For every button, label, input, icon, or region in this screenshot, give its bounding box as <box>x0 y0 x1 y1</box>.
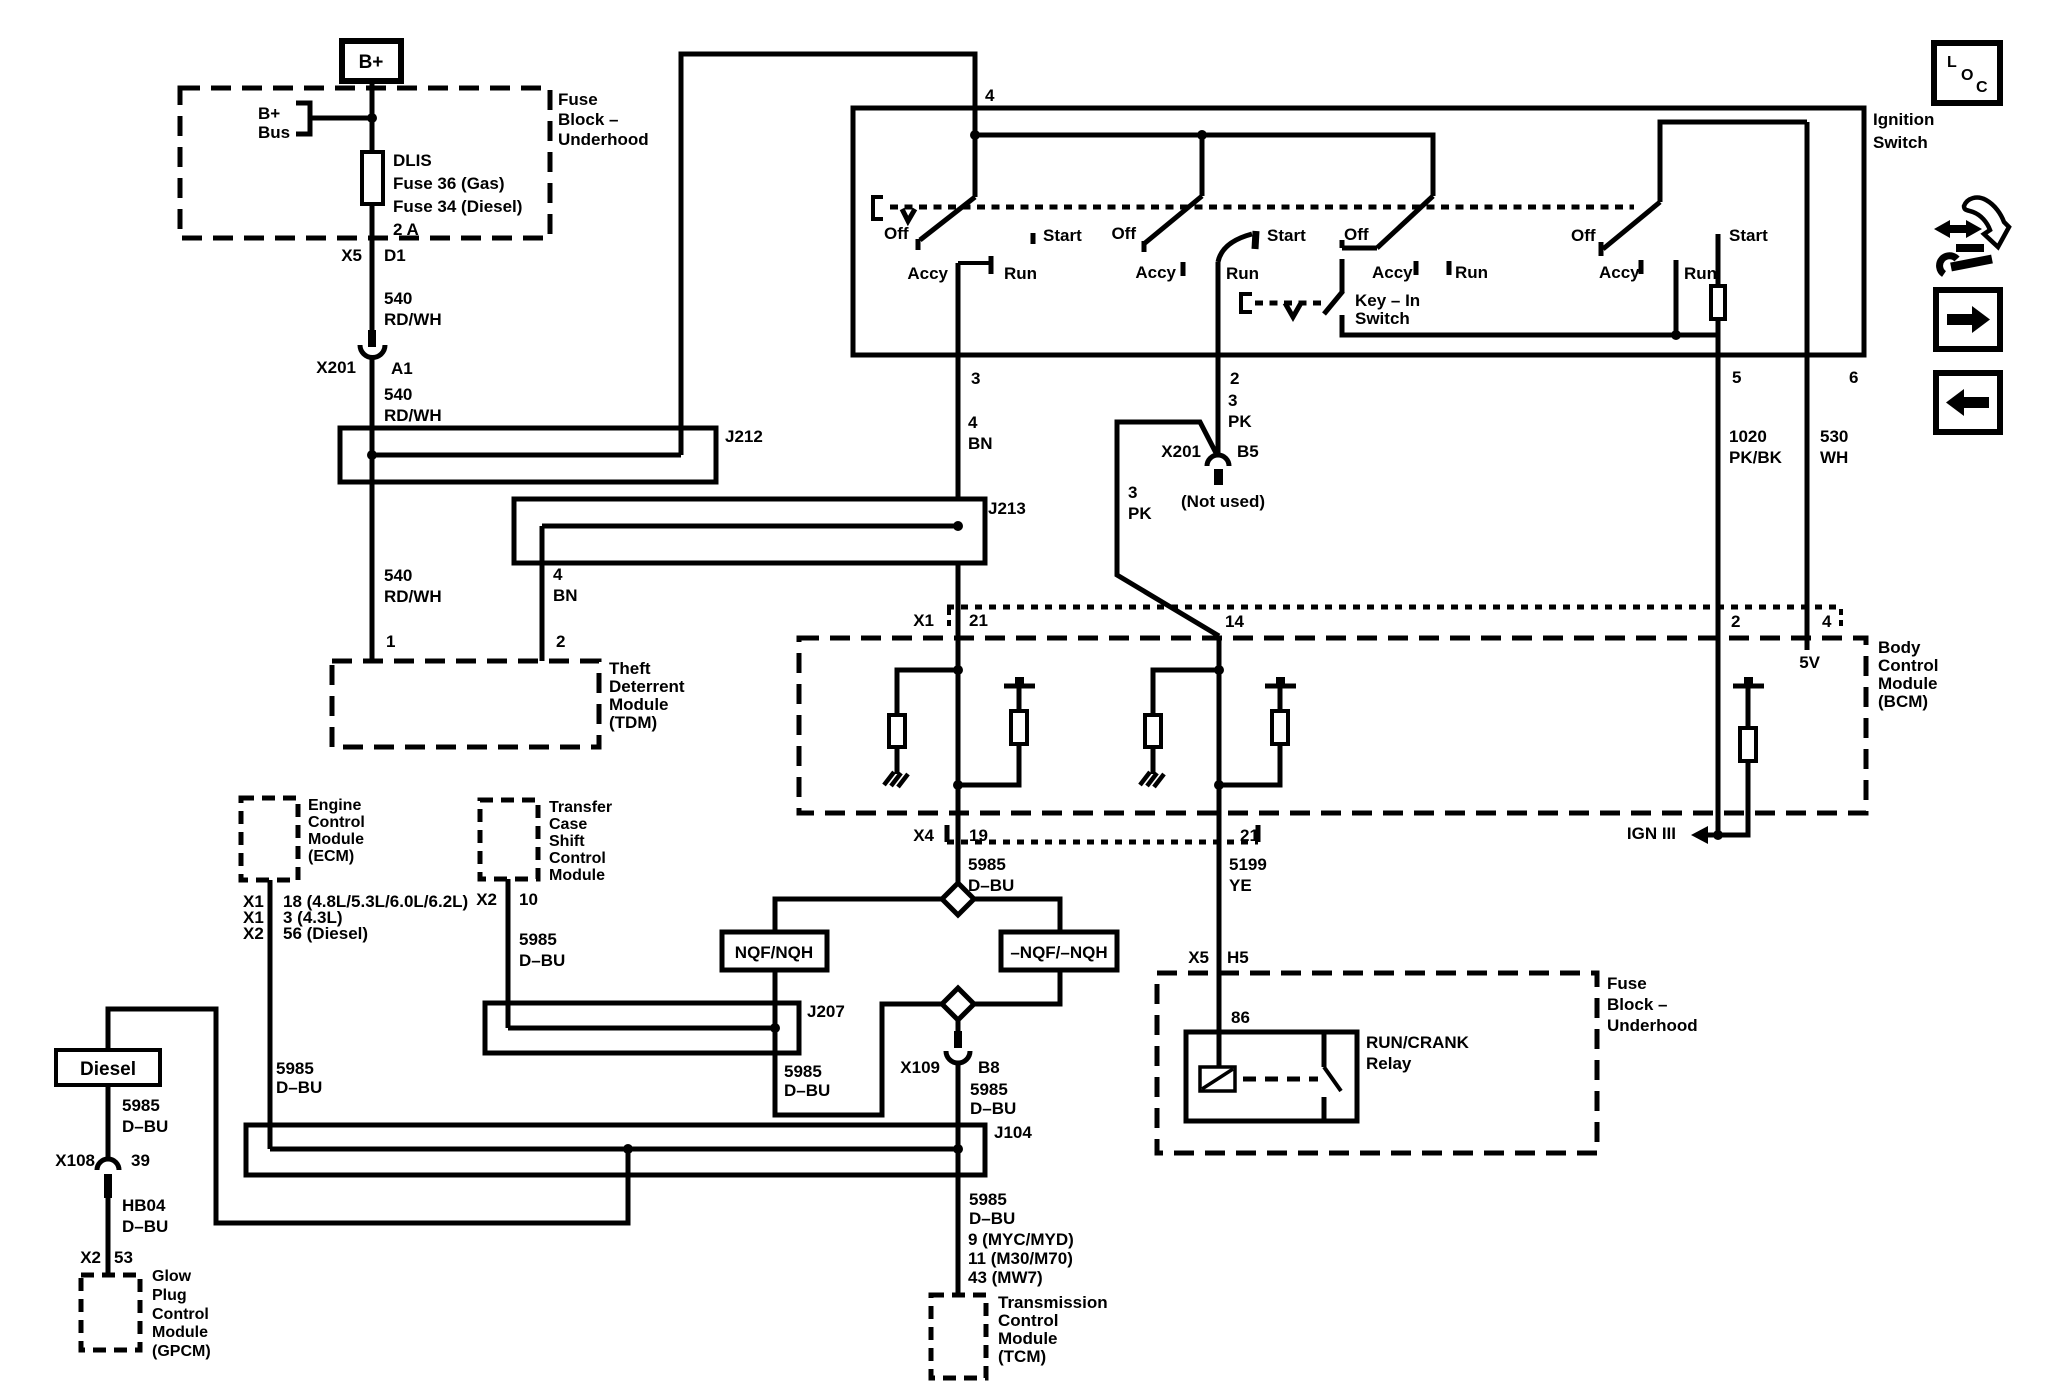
switch2 Accy tick <box>1181 262 1186 276</box>
wire pin4 internal vertical <box>973 109 978 197</box>
connector X201 A1 terminal <box>368 330 376 347</box>
svg-text:WH: WH <box>1820 448 1848 467</box>
switch3 blade <box>1377 196 1433 248</box>
svg-text:3: 3 <box>971 369 980 388</box>
switch3 Run tick <box>1447 261 1452 275</box>
junction dot pin21 lower <box>953 780 963 790</box>
wire J207 internal <box>508 1026 775 1031</box>
wire label 5985 D-BU transfer <box>519 930 565 970</box>
svg-text:Run: Run <box>1455 263 1488 282</box>
svg-text:5985: 5985 <box>968 855 1006 874</box>
wire diamond2 to X109 <box>956 1020 961 1031</box>
wire BCM pin4 5V stub <box>1805 607 1810 650</box>
wire diesel to X108 <box>106 1085 111 1160</box>
wire bus to junction <box>310 116 373 121</box>
svg-text:–NQF/–NQH: –NQF/–NQH <box>1010 943 1107 962</box>
theft deterrent module TDM dashed box <box>332 661 599 747</box>
switch1 Run tick <box>989 256 994 274</box>
X1 pin labels <box>913 611 1832 631</box>
wire J212 to ignition pin 4 <box>681 54 975 455</box>
option splice diamond upper <box>942 883 974 915</box>
right arrow box <box>1936 290 2000 349</box>
svg-text:1020: 1020 <box>1729 427 1767 446</box>
wire label HB04 D-BU <box>122 1196 168 1236</box>
tool icon wrench <box>1940 256 1957 274</box>
switch2 start curve <box>1218 234 1252 262</box>
BCM pulldown branch pin21 <box>897 670 958 715</box>
rail T-bar pin2 <box>1733 684 1764 689</box>
junction dot switch2 feed <box>1197 130 1207 140</box>
svg-text:X201: X201 <box>316 358 356 377</box>
svg-text:X2: X2 <box>476 890 497 909</box>
svg-text:X5: X5 <box>1188 948 1209 967</box>
rail T-bar pin21 <box>1004 684 1035 689</box>
wire BCM pin21 internal <box>956 638 961 813</box>
relay coil diagonal <box>1202 1069 1233 1089</box>
svg-text:PK: PK <box>1128 504 1152 523</box>
wire resistor to ground pin14 <box>1151 747 1156 774</box>
wire -NQF to diamond2 <box>974 970 1060 1004</box>
svg-text:NQF/NQH: NQF/NQH <box>735 943 813 962</box>
key-in blade <box>1324 291 1343 314</box>
wire label 1020 PK/BK <box>1729 427 1783 467</box>
svg-text:Module: Module <box>1878 674 1938 693</box>
wire BCM pin14 internal <box>1217 636 1222 813</box>
wire diamond to NQF <box>775 899 942 932</box>
key-in common upper <box>1340 259 1345 292</box>
tool icon curved outline arrow <box>1964 198 2009 247</box>
svg-text:D–BU: D–BU <box>519 951 565 970</box>
svg-text:3: 3 <box>1128 483 1137 502</box>
junction dot J104 right <box>953 1144 963 1154</box>
key-in V arrow <box>1285 303 1301 317</box>
option dashed line <box>890 205 1634 210</box>
wire resistor to ground <box>895 747 900 774</box>
pin number labels 3 2 5 6 <box>971 368 1858 388</box>
svg-text:J213: J213 <box>988 499 1026 518</box>
svg-text:3: 3 <box>1228 391 1237 410</box>
BCM pin2 resistor branch <box>1718 761 1748 835</box>
svg-text:Start: Start <box>1043 226 1082 245</box>
switch4 labels <box>1571 226 1768 283</box>
relay coil <box>1200 1067 1235 1091</box>
junction dot run contact <box>1671 330 1681 340</box>
fuse block underhood dashed box <box>180 88 550 238</box>
svg-text:Fuse: Fuse <box>1607 974 1647 993</box>
svg-text:540: 540 <box>384 566 412 585</box>
connector X201 A1 labels <box>316 358 412 378</box>
switch4 feed path <box>1660 122 1807 202</box>
switch4 Off tick <box>1599 242 1604 256</box>
splice box J213 <box>514 499 985 563</box>
connector X4 left bracket <box>945 825 950 842</box>
svg-text:A1: A1 <box>391 359 413 378</box>
switch2 blade <box>1145 196 1202 243</box>
X108 labels <box>55 1151 150 1170</box>
junction dot J212 <box>367 450 377 460</box>
junction dot pin4 bus <box>970 130 980 140</box>
svg-text:YE: YE <box>1229 876 1252 895</box>
wire label 530 WH <box>1820 427 1848 467</box>
svg-text:Fuse 34 (Diesel): Fuse 34 (Diesel) <box>393 197 522 216</box>
svg-text:10: 10 <box>519 890 538 909</box>
svg-text:4: 4 <box>1822 612 1832 631</box>
switch2 labels <box>1111 224 1306 283</box>
option splice diamond lower <box>942 988 974 1020</box>
svg-text:Diesel: Diesel <box>80 1059 136 1080</box>
svg-text:Relay: Relay <box>1366 1054 1412 1073</box>
ground BCM pin14 <box>1140 772 1164 787</box>
svg-text:Control: Control <box>998 1311 1058 1330</box>
svg-text:J212: J212 <box>725 427 763 446</box>
svg-text:Switch: Switch <box>1355 309 1410 328</box>
wire internal feed bus <box>975 135 1433 196</box>
relay switch blade <box>1324 1067 1341 1091</box>
connector X1 dotted line <box>947 605 1841 610</box>
ground BCM pin21 <box>884 772 908 787</box>
svg-text:C: C <box>1976 79 1988 96</box>
svg-text:D–BU: D–BU <box>968 876 1014 895</box>
wire label 5199 YE <box>1229 855 1267 895</box>
svg-text:Off: Off <box>1344 225 1369 244</box>
svg-text:4: 4 <box>968 413 978 432</box>
svg-text:X4: X4 <box>913 826 934 845</box>
option box -NQF/-NQH <box>1001 932 1117 970</box>
svg-text:5985: 5985 <box>784 1062 822 1081</box>
X5 H5 pin labels <box>1188 948 1249 967</box>
svg-text:X5: X5 <box>341 246 362 265</box>
svg-text:Control: Control <box>152 1306 209 1323</box>
svg-text:Off: Off <box>884 224 909 243</box>
svg-text:5985: 5985 <box>970 1080 1008 1099</box>
svg-text:Block –: Block – <box>558 110 618 129</box>
transfer case shift control module dashed box <box>480 800 538 879</box>
BCM pulldown branch pin14 <box>1153 670 1219 715</box>
svg-text:Start: Start <box>1729 226 1768 245</box>
svg-text:PK: PK <box>1228 412 1252 431</box>
connector X201 A1 cup <box>360 345 385 357</box>
wire label 4 BN left <box>553 565 578 605</box>
svg-text:Underhood: Underhood <box>558 130 649 149</box>
switch2 start arrow bar <box>1255 231 1256 249</box>
wire J104 internal <box>270 1147 958 1152</box>
option V arrow <box>902 209 915 221</box>
svg-text:2 A: 2 A <box>393 220 419 239</box>
svg-text:2: 2 <box>1731 612 1740 631</box>
engine control module ECM dashed box <box>241 798 298 880</box>
relay switch lower contact <box>1322 1097 1327 1119</box>
svg-text:4: 4 <box>553 565 563 584</box>
wire B8 through J104 to TCM <box>956 1125 961 1295</box>
connector X108 cap <box>97 1159 119 1170</box>
switch1 Start tick <box>1031 233 1036 244</box>
svg-text:D–BU: D–BU <box>276 1078 322 1097</box>
wire label 5985 D-BU X109 <box>970 1080 1016 1118</box>
svg-text:21: 21 <box>1240 826 1259 845</box>
switch4 start resistor <box>1711 286 1725 319</box>
wire X201 to TDM pin 1 <box>370 358 375 661</box>
switch3 Off contact <box>1342 240 1377 248</box>
svg-text:Ignition: Ignition <box>1873 110 1934 129</box>
switch1 labels <box>884 224 1082 283</box>
wire X108 to GPCM <box>106 1198 111 1275</box>
wire pin 5 to BCM 2 <box>1716 335 1721 638</box>
wire fuse to X201 <box>370 204 375 330</box>
svg-text:5985: 5985 <box>122 1096 160 1115</box>
resistor BCM pin14 pullup <box>1272 711 1288 744</box>
tool icon bottom bar <box>1956 244 1984 252</box>
junction dot J104 left <box>623 1144 633 1154</box>
connector X109 terminal <box>954 1031 962 1048</box>
switch3 Accy tick <box>1414 261 1419 275</box>
ECM label <box>308 797 365 865</box>
connector X1 left stub <box>947 609 951 628</box>
svg-text:21: 21 <box>969 611 988 630</box>
wire diamond to -NQF <box>974 899 1060 932</box>
svg-text:Engine: Engine <box>308 797 361 814</box>
svg-text:Module: Module <box>549 867 605 884</box>
wire switch1 to pin 3 <box>956 263 961 355</box>
wire label 540 RD/WH lower <box>384 566 442 606</box>
svg-text:RD/WH: RD/WH <box>384 310 442 329</box>
svg-text:Key – In: Key – In <box>1355 291 1420 310</box>
svg-text:X2: X2 <box>243 924 264 943</box>
svg-text:Control: Control <box>308 814 365 831</box>
svg-text:Accy: Accy <box>1135 263 1176 282</box>
wire NQF to J207 <box>773 970 778 1003</box>
splice box J207 <box>485 1003 799 1053</box>
IGN III arrowhead <box>1691 826 1708 844</box>
rail nub pin2 <box>1744 677 1753 686</box>
fuse DLIS symbol <box>362 152 383 204</box>
ECM pin option labels <box>243 892 468 943</box>
switch1 Off tick <box>916 239 921 250</box>
wire pin 6 to BCM 4 <box>1805 122 1810 607</box>
svg-text:RUN/CRANK: RUN/CRANK <box>1366 1033 1470 1052</box>
rail T-bar pin14 <box>1265 684 1296 689</box>
junction dot B+ bus <box>367 113 377 123</box>
wire NQF through J207 <box>773 1003 778 1053</box>
svg-text:Transmission: Transmission <box>998 1293 1108 1312</box>
wire J207 loop to diamond2 <box>775 1004 942 1115</box>
switch1 Accy-Run contact bar <box>958 261 990 265</box>
svg-text:D–BU: D–BU <box>969 1209 1015 1228</box>
svg-text:5199: 5199 <box>1229 855 1267 874</box>
svg-text:B8: B8 <box>978 1058 1000 1077</box>
transfer case pin labels <box>476 890 538 909</box>
svg-text:RD/WH: RD/WH <box>384 587 442 606</box>
body control module BCM dashed box <box>799 638 1866 813</box>
svg-text:1: 1 <box>386 632 395 651</box>
svg-text:Accy: Accy <box>1599 263 1640 282</box>
svg-text:B+: B+ <box>258 104 280 123</box>
BCM pullup branch pin14 <box>1219 744 1280 785</box>
svg-text:14: 14 <box>1225 612 1244 631</box>
relay switch upper contact <box>1322 1034 1327 1067</box>
switch4 Accy tick <box>1639 260 1644 274</box>
svg-text:Underhood: Underhood <box>1607 1016 1698 1035</box>
pin X5 D1 labels <box>341 246 406 265</box>
svg-text:Body: Body <box>1878 638 1921 657</box>
svg-text:Module: Module <box>609 695 669 714</box>
svg-text:Block –: Block – <box>1607 995 1667 1014</box>
wire label 5985 D-BU diesel <box>122 1096 168 1136</box>
svg-text:(TCM): (TCM) <box>998 1347 1046 1366</box>
connector X108 terminal <box>104 1174 112 1198</box>
resistor BCM pin14 pulldown <box>1145 715 1161 747</box>
wire BCM 19 to splice <box>956 813 961 884</box>
resistor BCM pin21 pullup <box>1011 711 1027 744</box>
svg-text:Module: Module <box>308 831 364 848</box>
svg-text:HB04: HB04 <box>122 1196 166 1215</box>
fuse block underhood lower dashed box <box>1157 973 1597 1153</box>
svg-text:Run: Run <box>1684 264 1717 283</box>
svg-text:Start: Start <box>1267 226 1306 245</box>
B+ bus label <box>258 104 290 142</box>
svg-text:540: 540 <box>384 385 412 404</box>
TDM label <box>609 659 685 732</box>
svg-text:530: 530 <box>1820 427 1848 446</box>
connector X109 cup <box>946 1051 970 1063</box>
svg-text:J104: J104 <box>994 1123 1032 1142</box>
svg-text:IGN III: IGN III <box>1627 824 1676 843</box>
wire resistor to rail pin14 <box>1278 688 1283 711</box>
svg-text:540: 540 <box>384 289 412 308</box>
svg-text:D–BU: D–BU <box>970 1099 1016 1118</box>
diesel option box <box>56 1050 160 1085</box>
svg-text:Module: Module <box>152 1324 208 1341</box>
svg-text:B5: B5 <box>1237 442 1259 461</box>
svg-text:Module: Module <box>998 1329 1058 1348</box>
svg-text:56 (Diesel): 56 (Diesel) <box>283 924 368 943</box>
run/crank relay box <box>1186 1032 1357 1121</box>
wire BCM pin2 internal <box>1716 638 1721 835</box>
connector X201 B5 cap <box>1207 455 1229 466</box>
svg-text:L: L <box>1947 54 1957 71</box>
relay dashed link <box>1243 1077 1318 1082</box>
svg-text:Glow: Glow <box>152 1268 192 1285</box>
LOC box <box>1934 43 2000 103</box>
svg-text:(GPCM): (GPCM) <box>152 1343 211 1360</box>
svg-text:Theft: Theft <box>609 659 651 678</box>
svg-text:4: 4 <box>985 86 995 105</box>
rail nub pin21 <box>1015 677 1024 686</box>
svg-text:X109: X109 <box>900 1058 940 1077</box>
svg-text:Switch: Switch <box>1873 133 1928 152</box>
key-in dashed line <box>1255 301 1322 306</box>
wire J212 internal <box>372 453 681 458</box>
svg-text:5: 5 <box>1732 368 1741 387</box>
svg-text:O: O <box>1961 67 1973 84</box>
wire pin2 to X201 B5 <box>1216 355 1221 453</box>
svg-text:J207: J207 <box>807 1002 845 1021</box>
svg-text:BN: BN <box>553 586 578 605</box>
switch2 Off tick <box>1142 241 1147 252</box>
tool icon double arrow <box>1942 225 1974 233</box>
wire label 4 BN pin3 <box>968 413 993 453</box>
connector X1 right stub <box>1839 609 1843 626</box>
junction dot pin14 upper <box>1214 665 1224 675</box>
svg-text:Fuse 36 (Gas): Fuse 36 (Gas) <box>393 174 505 193</box>
wire label 5985 D-BU J207 <box>784 1062 830 1100</box>
svg-text:Run: Run <box>1226 264 1259 283</box>
svg-text:Fuse: Fuse <box>558 90 598 109</box>
svg-text:D–BU: D–BU <box>122 1117 168 1136</box>
BCM label <box>1878 638 1938 711</box>
svg-text:Accy: Accy <box>907 264 948 283</box>
switch4 blade <box>1603 202 1660 249</box>
svg-text:(TDM): (TDM) <box>609 713 657 732</box>
wire 4 BN to BCM 21 <box>956 563 961 638</box>
wire J213 to TDM pin 2 <box>540 526 545 661</box>
tool icon wrench handle <box>1951 259 1992 267</box>
svg-text:Bus: Bus <box>258 123 290 142</box>
svg-text:6: 6 <box>1849 368 1858 387</box>
connector X201 B5 terminal <box>1214 469 1223 485</box>
fuse block lower label <box>1607 974 1698 1035</box>
ignition switch label <box>1873 110 1934 152</box>
connector X4 dotted line <box>947 840 1258 845</box>
switch1 blade <box>920 197 975 240</box>
svg-text:5985: 5985 <box>276 1059 314 1078</box>
svg-text:X2: X2 <box>80 1248 101 1267</box>
svg-text:86: 86 <box>1231 1008 1250 1027</box>
svg-text:X108: X108 <box>55 1151 95 1170</box>
svg-text:RD/WH: RD/WH <box>384 406 442 425</box>
wire B5 branch to BCM 14 <box>1117 422 1219 636</box>
fuse block underhood label <box>558 90 649 149</box>
ignition switch box <box>853 108 1864 355</box>
svg-text:(Not used): (Not used) <box>1181 492 1265 511</box>
wire switch2 to pin 2 <box>1216 262 1221 355</box>
connector X4 right bracket <box>1256 825 1261 842</box>
svg-text:43 (MW7): 43 (MW7) <box>968 1268 1043 1287</box>
glow plug control module GPCM dashed box <box>81 1275 140 1350</box>
fuse labels <box>393 151 522 239</box>
wire label 5985 D-BU splice <box>968 855 1014 895</box>
junction dot pin21 upper <box>953 665 963 675</box>
X4 pin labels <box>913 826 1259 845</box>
svg-text:2: 2 <box>1230 369 1239 388</box>
resistor BCM pin21 pulldown <box>889 715 905 747</box>
splice box J212 <box>340 428 716 482</box>
switch4 Run contact line <box>1674 260 1679 335</box>
wire transfer case to J207 <box>506 879 511 1028</box>
wire label 540 RD/WH upper <box>384 289 442 329</box>
wire X109 to J104 <box>956 1063 961 1125</box>
junction dot IGN III <box>1713 830 1723 840</box>
left arrow box <box>1936 373 2000 432</box>
BCM pullup branch pin21 <box>958 744 1019 785</box>
wire label 3 PK branch <box>1128 483 1152 523</box>
resistor BCM pin2 <box>1740 728 1756 761</box>
svg-text:19: 19 <box>969 826 988 845</box>
svg-text:39: 39 <box>131 1151 150 1170</box>
wire BCM 21 to relay <box>1217 813 1222 1067</box>
B+ bus bracket <box>296 103 310 134</box>
svg-text:B+: B+ <box>359 52 384 73</box>
svg-text:Run: Run <box>1004 264 1037 283</box>
svg-text:Control: Control <box>549 850 606 867</box>
svg-text:PK/BK: PK/BK <box>1729 448 1783 467</box>
svg-text:H5: H5 <box>1227 948 1249 967</box>
wire B+ to fuse <box>370 81 375 152</box>
switch3 labels <box>1344 225 1488 282</box>
switch4 Start line lower <box>1716 319 1721 335</box>
svg-text:2: 2 <box>556 632 565 651</box>
svg-text:5V: 5V <box>1799 653 1820 672</box>
wire J213 internal <box>542 524 958 529</box>
